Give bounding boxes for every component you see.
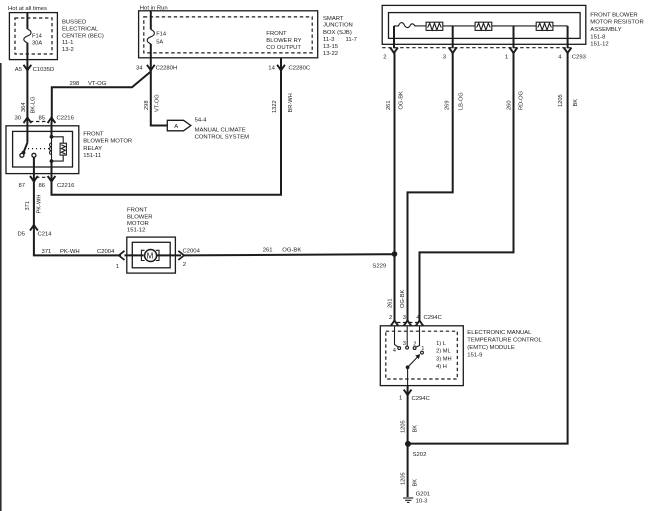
svg-text:CONTROL SYSTEM: CONTROL SYSTEM <box>195 135 250 141</box>
svg-text:BOX (SJB): BOX (SJB) <box>323 30 352 36</box>
svg-text:364: 364 <box>21 103 27 113</box>
svg-text:261: 261 <box>386 101 392 111</box>
svg-text:86: 86 <box>39 183 46 189</box>
svg-text:BR-WH: BR-WH <box>288 93 294 112</box>
fuse box B2: Smart Junction Box (SJB) <box>139 11 357 58</box>
svg-text:F14: F14 <box>156 31 166 37</box>
svg-text:151-8: 151-8 <box>590 35 606 41</box>
relay switch contacts (pin 30 / 87) <box>20 143 50 158</box>
wire 1322 BR-WH (C2280C to relay pin 86) <box>52 71 295 195</box>
connector C294C pins 2 3 4 <box>389 315 443 326</box>
splice S229 <box>372 251 397 269</box>
svg-text:13-2: 13-2 <box>62 47 74 53</box>
fuse F14 5A <box>147 11 166 58</box>
svg-text:85: 85 <box>39 116 46 122</box>
svg-text:151-11: 151-11 <box>83 153 101 159</box>
wire 1205 BK (S202 to ground) <box>400 444 418 497</box>
wire 261 OG-BK (motor to splice S229) <box>184 248 395 256</box>
svg-text:MOTOR RESISTOR: MOTOR RESISTOR <box>590 20 643 26</box>
wire 1205 BK (resistor pin 4 down to S202) <box>411 53 579 443</box>
connector C294C pin 1 <box>399 386 431 402</box>
connector D5 C214 <box>18 225 53 238</box>
svg-text:298: 298 <box>144 101 150 111</box>
connector C2004 pin 2 (chevron) <box>178 248 200 267</box>
svg-text:ELECTRICAL: ELECTRICAL <box>62 26 99 32</box>
wire 298 VT-OG (down to climate control) <box>144 71 167 126</box>
svg-text:PK-WH: PK-WH <box>60 249 80 255</box>
svg-text:C2004: C2004 <box>183 248 201 254</box>
resistor R-c <box>492 22 568 30</box>
svg-text:BK: BK <box>413 479 419 487</box>
svg-text:(EMTC) MODULE: (EMTC) MODULE <box>467 345 515 351</box>
svg-text:C2216: C2216 <box>57 183 75 189</box>
svg-text:269: 269 <box>445 101 451 111</box>
wire 371 PK-WH horizontal to blower motor <box>34 249 121 255</box>
svg-text:PK-WH: PK-WH <box>37 195 43 214</box>
svg-text:151-12: 151-12 <box>590 41 608 47</box>
svg-text:C294C: C294C <box>412 396 431 402</box>
svg-text:FRONT: FRONT <box>127 208 148 214</box>
svg-text:BUSSED: BUSSED <box>62 19 86 25</box>
wire 261 OG-BK (resistor pin 2 to S229 to EMTC pin 2) <box>386 53 406 320</box>
power feed label: Hot in Run <box>140 5 168 11</box>
svg-text:S229: S229 <box>372 264 386 270</box>
svg-text:C2280H: C2280H <box>156 65 178 71</box>
svg-text:261: 261 <box>263 248 273 254</box>
svg-text:11-1: 11-1 <box>62 40 73 46</box>
EMTC speed legend <box>436 341 451 370</box>
svg-text:2) ML: 2) ML <box>436 349 451 355</box>
svg-text:1205: 1205 <box>558 94 564 107</box>
svg-text:BLOWER RY: BLOWER RY <box>266 38 301 44</box>
thermal limiter <box>394 23 418 28</box>
svg-text:87: 87 <box>19 183 26 189</box>
svg-text:298: 298 <box>70 81 81 87</box>
svg-text:SMART: SMART <box>323 16 344 22</box>
svg-text:CENTER (BEC): CENTER (BEC) <box>62 33 104 39</box>
control module U1: EMTC module <box>380 326 542 386</box>
svg-text:C294C: C294C <box>424 315 443 321</box>
svg-text:D5: D5 <box>18 231 26 237</box>
wire 269 LB-OG (resistor pin 3 to EMTC pin 3) <box>408 53 465 320</box>
connector A5 C1035D <box>15 65 54 73</box>
svg-text:2: 2 <box>383 54 386 60</box>
splice S202 <box>405 441 426 458</box>
connector C2004 pin 1 (chevron) <box>116 251 125 270</box>
svg-text:C2004: C2004 <box>97 249 115 255</box>
power feed label: Hot at all times <box>8 6 47 12</box>
svg-text:G201: G201 <box>416 491 430 497</box>
svg-text:A: A <box>174 124 178 130</box>
svg-text:M: M <box>147 251 154 260</box>
svg-text:1: 1 <box>116 264 119 270</box>
svg-text:MANUAL CLIMATE: MANUAL CLIMATE <box>195 127 246 133</box>
off-page reference A: Manual Climate Control System 54-4 <box>167 118 249 141</box>
resistor internal pin risers <box>394 26 568 48</box>
svg-text:2: 2 <box>413 342 416 348</box>
svg-text:2: 2 <box>389 315 392 321</box>
svg-text:2: 2 <box>183 262 186 268</box>
svg-text:4: 4 <box>393 348 396 354</box>
svg-text:C2280C: C2280C <box>289 65 311 71</box>
wire 371 PK-WH (relay 87 down to C214) <box>25 182 42 256</box>
svg-text:C214: C214 <box>38 231 53 237</box>
svg-text:371: 371 <box>42 249 52 255</box>
svg-text:3) MH: 3) MH <box>436 356 451 362</box>
wire 364 BK-LG (BEC to relay pin 30) <box>21 60 37 143</box>
svg-text:3: 3 <box>403 341 406 347</box>
wire 298 VT-OG (branch to relay pin 85) <box>52 72 151 123</box>
fuse box B1: Bussed Electrical Center (BEC) <box>9 13 104 60</box>
svg-text:13-22: 13-22 <box>323 51 338 57</box>
svg-text:54-4: 54-4 <box>195 118 208 124</box>
wire 260 RD-OG (resistor pin 1 to EMTC pin 4) <box>420 53 525 320</box>
svg-text:1) L: 1) L <box>436 341 446 347</box>
svg-text:11-3: 11-3 <box>323 37 335 43</box>
svg-text:BLOWER MOTOR: BLOWER MOTOR <box>83 139 132 145</box>
svg-text:S202: S202 <box>413 452 427 458</box>
svg-text:34: 34 <box>136 65 143 71</box>
svg-text:BK-LG: BK-LG <box>30 96 36 113</box>
svg-text:151-9: 151-9 <box>467 352 482 358</box>
svg-text:JUNCTION: JUNCTION <box>323 23 353 29</box>
EMTC switch wiper arm <box>406 354 421 386</box>
svg-text:VT-OG: VT-OG <box>88 81 107 87</box>
svg-text:1: 1 <box>505 54 508 60</box>
svg-text:4) H: 4) H <box>436 364 447 370</box>
motor M1: Front Blower Motor <box>125 208 182 273</box>
EMTC blower switch terminals <box>393 327 425 355</box>
svg-text:5A: 5A <box>156 40 163 46</box>
svg-text:13-15: 13-15 <box>323 44 339 50</box>
svg-text:1: 1 <box>399 396 402 402</box>
wire 1205 BK (EMTC to S202) <box>400 396 418 444</box>
connector C2280C pin 14 <box>268 58 311 72</box>
svg-text:1205: 1205 <box>400 472 406 485</box>
connector C293 pins 2 3 1 4 <box>382 48 586 61</box>
relay K1: Front Blower Motor Relay <box>6 126 132 174</box>
svg-text:RELAY: RELAY <box>83 146 102 152</box>
svg-text:CO OUTPUT: CO OUTPUT <box>266 45 301 51</box>
svg-text:260: 260 <box>506 101 512 111</box>
connector C2280H pin 34 <box>136 58 177 72</box>
svg-text:ASSEMBLY: ASSEMBLY <box>590 27 621 33</box>
svg-text:151-12: 151-12 <box>127 228 145 234</box>
connector C2216 pins 30 and 85 <box>15 116 75 124</box>
svg-text:1322: 1322 <box>272 100 278 113</box>
svg-text:RD-OG: RD-OG <box>518 91 524 110</box>
svg-text:ELECTRONIC MANUAL: ELECTRONIC MANUAL <box>467 330 532 336</box>
svg-text:1: 1 <box>421 346 424 352</box>
svg-text:LB-OG: LB-OG <box>458 92 464 110</box>
svg-text:1205: 1205 <box>400 420 406 433</box>
svg-text:BK: BK <box>573 99 579 107</box>
svg-text:BK: BK <box>413 425 419 433</box>
ground G201 <box>403 491 430 504</box>
relay coil with parallel resistor <box>50 122 67 163</box>
svg-text:VT-OG: VT-OG <box>155 94 161 112</box>
svg-text:C293: C293 <box>572 54 587 60</box>
svg-text:FRONT: FRONT <box>266 31 287 37</box>
resistor R-a <box>418 22 443 30</box>
svg-text:A5: A5 <box>15 67 23 73</box>
svg-text:261: 261 <box>388 299 394 309</box>
svg-text:OG-BK: OG-BK <box>400 289 406 308</box>
svg-text:FRONT: FRONT <box>83 131 104 137</box>
svg-text:F14: F14 <box>32 34 42 40</box>
resistor R-b <box>443 22 492 30</box>
svg-text:C1035D: C1035D <box>33 67 55 73</box>
svg-text:14: 14 <box>268 65 275 71</box>
svg-text:C2216: C2216 <box>57 116 75 122</box>
svg-text:371: 371 <box>25 201 31 211</box>
svg-text:10-3: 10-3 <box>416 499 429 505</box>
svg-text:TEMPERATURE CONTROL: TEMPERATURE CONTROL <box>467 338 542 344</box>
fuse F14 30A <box>24 13 43 60</box>
svg-text:30: 30 <box>15 116 22 122</box>
svg-text:OG-BK: OG-BK <box>399 91 405 110</box>
svg-text:Hot at all times: Hot at all times <box>8 6 47 12</box>
resistor pack R1: Front Blower Motor Resistor Assembly <box>382 5 644 47</box>
svg-text:11-7: 11-7 <box>346 37 357 43</box>
svg-text:MOTOR: MOTOR <box>127 221 149 227</box>
svg-text:BLOWER: BLOWER <box>127 214 153 220</box>
svg-text:30A: 30A <box>32 41 42 47</box>
connector C2216 pins 87 and 86 <box>19 157 76 189</box>
svg-text:FRONT BLOWER: FRONT BLOWER <box>590 13 637 19</box>
svg-text:OG-BK: OG-BK <box>282 248 301 254</box>
